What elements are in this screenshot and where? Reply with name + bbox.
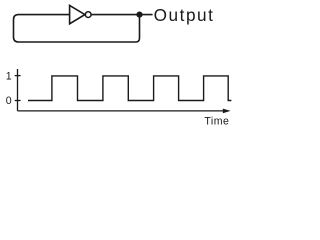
axis: horizontal (time) with arrowhead <box>18 110 225 112</box>
inverter bubble <box>85 12 91 18</box>
waveform: square wave output <box>28 76 231 101</box>
tick: logic 1 level <box>15 75 21 77</box>
svg-text:Time: Time <box>204 116 229 128</box>
tick: logic 0 level <box>15 100 21 102</box>
axis: vertical (logic level) <box>17 69 19 111</box>
node: junction dot <box>136 12 142 18</box>
svg-text:1: 1 <box>6 70 12 82</box>
svg-text:Output: Output <box>154 5 215 25</box>
wire: feedback loop from inverter input around to output node <box>14 15 140 42</box>
wire: inverter output to Output label <box>91 14 152 16</box>
svg-text:0: 0 <box>6 95 12 107</box>
inverter U1 (NOT gate triangle) <box>70 5 85 23</box>
